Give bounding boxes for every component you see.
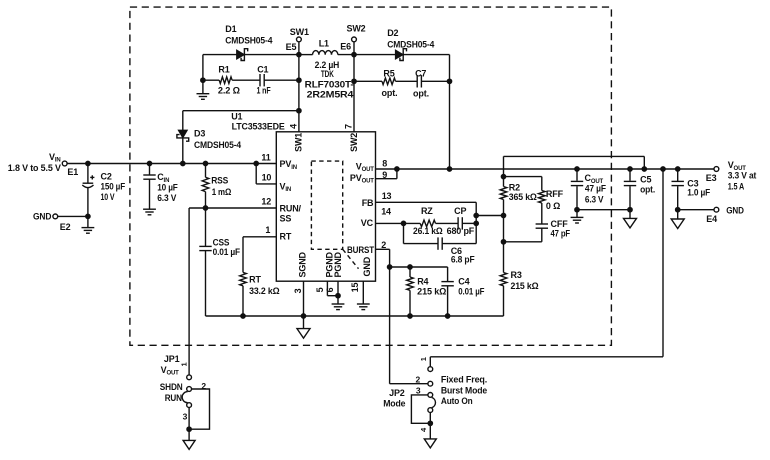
- svg-text:RSS: RSS: [211, 176, 228, 186]
- svg-text:VC: VC: [361, 218, 374, 228]
- junction pin11 stub: [254, 161, 258, 165]
- wire E2 to C2: [58, 215, 88, 217]
- junction R4 top: [408, 265, 412, 269]
- junction FB / divider branch: [474, 213, 478, 217]
- svg-text:8: 8: [382, 158, 387, 168]
- wire JP2 pin1 to VOUT: [662, 169, 664, 357]
- svg-text:CSS: CSS: [213, 238, 230, 248]
- resistor RT: [243, 236, 276, 238]
- svg-text:SW2: SW2: [346, 24, 365, 34]
- svg-text:E1: E1: [67, 167, 78, 177]
- wire analog ground bus: [206, 315, 504, 317]
- wire VOUT rail: [397, 168, 714, 170]
- wire BURST to JP2 pin2: [390, 383, 428, 385]
- JP2 pin 1: [428, 367, 433, 372]
- svg-text:opt.: opt.: [640, 184, 655, 194]
- capacitor CSS: [205, 208, 207, 246]
- svg-text:L1: L1: [319, 39, 329, 49]
- junction SW1/D3 wire: [297, 109, 301, 113]
- junction D2 drop / R5C7: [447, 79, 451, 83]
- svg-text:215 kΩ: 215 kΩ: [511, 281, 539, 291]
- svg-text:CP: CP: [454, 206, 466, 216]
- node VOUT terminal E3: [714, 167, 719, 172]
- svg-text:R1: R1: [218, 64, 229, 74]
- svg-text:3.3 V at: 3.3 V at: [728, 171, 757, 181]
- capacitor C7: [396, 80, 418, 82]
- junction PGND5/6: [336, 294, 340, 298]
- svg-text:SW2: SW2: [349, 133, 359, 152]
- junction C2 top: [86, 161, 90, 165]
- junction JP2 wire on VOUT rail: [661, 167, 665, 171]
- node SW2 terminal E6: [352, 37, 357, 42]
- JP1 shunt bracket pin2 to ground: [189, 389, 209, 429]
- junction sense on VOUT rail: [642, 167, 646, 171]
- node GND terminal E2: [53, 214, 58, 219]
- junction RT bottom on analog bus: [241, 314, 245, 318]
- svg-text:4: 4: [419, 427, 428, 432]
- wire C3 to E4: [678, 209, 714, 211]
- svg-text:PGND: PGND: [333, 251, 343, 277]
- capacitor C3: [677, 169, 679, 181]
- junction R2/RFF top: [501, 174, 505, 178]
- JP1 pin 1: [187, 375, 192, 380]
- svg-text:2.2 Ω: 2.2 Ω: [218, 86, 240, 96]
- wire VC pin14: [376, 222, 404, 224]
- svg-text:GND: GND: [33, 212, 52, 222]
- JP2 pin 4: [428, 408, 433, 413]
- wire SW1 vertical: [298, 42, 300, 132]
- svg-text:GND: GND: [362, 256, 372, 276]
- svg-text:1: 1: [419, 357, 428, 361]
- junction C5 bottom: [628, 208, 632, 212]
- resistor R2: [503, 177, 505, 187]
- svg-text:VIN: VIN: [49, 152, 61, 164]
- junction SW2/R5: [352, 79, 356, 83]
- svg-text:13: 13: [382, 191, 392, 201]
- svg-text:2R2M5R4: 2R2M5R4: [307, 90, 354, 100]
- svg-text:FB: FB: [362, 198, 374, 208]
- svg-text:R3: R3: [511, 270, 522, 280]
- svg-text:10: 10: [262, 173, 272, 183]
- svg-text:1: 1: [179, 362, 188, 366]
- svg-text:3: 3: [416, 386, 421, 396]
- junction RSS bottom / RUN-SS node: [203, 206, 207, 210]
- svg-text:Auto On: Auto On: [441, 396, 473, 406]
- wire PVOUT pin9: [376, 178, 397, 180]
- svg-text:opt.: opt.: [413, 89, 429, 99]
- svg-text:TDK: TDK: [321, 69, 334, 79]
- svg-text:E4: E4: [706, 214, 717, 224]
- wire PGND pin5: [326, 281, 328, 296]
- junction R4 bottom: [408, 314, 412, 318]
- svg-text:CMDSH05-4: CMDSH05-4: [387, 40, 434, 50]
- junction VC node: [401, 221, 405, 225]
- wire VOUT pin8: [376, 168, 397, 170]
- wire PVIN to VIN stub: [255, 164, 257, 184]
- wire COUT to C5 ground: [577, 209, 630, 211]
- ground triangle below C5: [624, 218, 637, 228]
- svg-text:RFF: RFF: [546, 189, 564, 199]
- capacitor CIN: [149, 164, 151, 176]
- junction RZ-CP end: [474, 221, 478, 225]
- svg-text:JP1: JP1: [164, 354, 180, 364]
- JP1 shunt arc pins 2-3: [182, 392, 188, 403]
- diode D1: [203, 54, 237, 56]
- junction SW1/D1/L1: [297, 52, 301, 56]
- ground below CIN: [143, 208, 156, 210]
- wire VIN rail: [67, 163, 276, 165]
- svg-text:C5: C5: [640, 175, 651, 185]
- ground below COUT: [576, 210, 578, 218]
- svg-text:Mode: Mode: [383, 398, 405, 408]
- svg-text:6.8 pF: 6.8 pF: [451, 254, 475, 264]
- junction FB node on divider: [501, 213, 505, 217]
- wire PGND pin6: [337, 281, 339, 304]
- junction pins 8/9: [395, 167, 399, 171]
- svg-text:E5: E5: [286, 42, 297, 52]
- wire JP1 drop: [188, 208, 190, 375]
- resistor R5: [354, 80, 382, 82]
- junction C3 bottom / E4: [676, 208, 680, 212]
- svg-text:D1: D1: [225, 24, 236, 34]
- wire BURST pin2: [376, 248, 390, 250]
- wire GND pin15: [362, 281, 364, 304]
- svg-text:SW1: SW1: [294, 133, 304, 152]
- svg-text:215 kΩ: 215 kΩ: [417, 286, 446, 296]
- node SW1 terminal E5: [297, 37, 302, 42]
- svg-text:U1: U1: [231, 111, 242, 121]
- capacitor C6: [403, 223, 405, 243]
- junction D2 drop on VOUT rail: [447, 167, 451, 171]
- diode D3: [182, 111, 184, 131]
- svg-text:680 pF: 680 pF: [447, 226, 475, 236]
- wire BURST drop to JP2: [389, 249, 391, 383]
- junction D3 cathode on VIN rail: [181, 161, 185, 165]
- svg-text:JP2: JP2: [389, 388, 405, 398]
- svg-text:6.3 V: 6.3 V: [585, 194, 604, 204]
- resistor R3: [503, 216, 505, 273]
- junction JP1 ground: [187, 427, 191, 431]
- ground below C2: [87, 216, 89, 227]
- junction JP2 ground: [428, 421, 432, 425]
- svg-text:1.5 A: 1.5 A: [728, 181, 745, 191]
- op-amp U1 LTC3533EDE body: [276, 132, 375, 281]
- capacitor C1: [232, 79, 260, 81]
- svg-text:14: 14: [381, 206, 391, 216]
- svg-text:Fixed Freq.: Fixed Freq.: [441, 375, 487, 385]
- svg-text:15: 15: [350, 283, 360, 293]
- junction R1 left: [201, 78, 205, 82]
- junction RSS top: [203, 161, 207, 165]
- svg-text:RT: RT: [249, 275, 261, 285]
- svg-text:C2: C2: [101, 172, 112, 182]
- ground triangle below C3: [671, 219, 684, 229]
- demo board dashed border: [130, 7, 612, 345]
- svg-text:1.0 µF: 1.0 µF: [687, 187, 710, 197]
- junction C5 top: [628, 167, 632, 171]
- svg-text:6: 6: [325, 287, 335, 292]
- node GND terminal E4: [714, 207, 719, 212]
- svg-text:D2: D2: [387, 28, 398, 38]
- ground for D1/R1: [202, 55, 204, 94]
- svg-text:1.8 V to 5.5 V: 1.8 V to 5.5 V: [8, 163, 61, 173]
- junction CFF bottom on divider: [501, 240, 505, 244]
- svg-text:E3: E3: [706, 173, 717, 183]
- capacitor C2: [87, 164, 89, 184]
- svg-text:10 V: 10 V: [101, 192, 115, 202]
- svg-text:10 µF: 10 µF: [157, 182, 178, 192]
- svg-text:6.3 V: 6.3 V: [157, 193, 176, 203]
- svg-text:CMDSH05-4: CMDSH05-4: [194, 140, 241, 150]
- wire BURST to R4/C4: [390, 266, 448, 268]
- wire JP1 pin3 to ground: [188, 408, 190, 429]
- exposed pad dashed outline: [311, 161, 342, 249]
- junction BURST / R4C4: [387, 265, 391, 269]
- svg-text:7: 7: [343, 124, 353, 129]
- svg-text:1 mΩ: 1 mΩ: [212, 187, 232, 197]
- svg-text:12: 12: [261, 197, 271, 207]
- wire SW2 vertical: [353, 42, 355, 132]
- wire to RFF top: [504, 176, 542, 178]
- resistor RSS: [205, 164, 207, 178]
- svg-text:26.1 kΩ: 26.1 kΩ: [413, 226, 443, 236]
- svg-text:GND: GND: [726, 206, 744, 216]
- wire RUN/SS pin12: [189, 207, 276, 209]
- svg-text:365 kΩ: 365 kΩ: [509, 192, 537, 202]
- svg-text:BURST: BURST: [347, 245, 375, 255]
- capacitor C4: [447, 267, 449, 282]
- wire JP2 pin4 to ground: [429, 413, 431, 424]
- svg-text:SHDN: SHDN: [160, 382, 183, 392]
- inductor L1: [299, 54, 313, 56]
- svg-text:Burst Mode: Burst Mode: [441, 386, 487, 396]
- junction SW1/C1: [297, 78, 301, 82]
- svg-text:4: 4: [288, 124, 298, 129]
- ground triangle JP1: [183, 440, 195, 449]
- wire FB pin13: [376, 201, 477, 203]
- ground triangle JP2: [424, 439, 436, 448]
- svg-text:1 nF: 1 nF: [257, 86, 272, 96]
- junction SGND on bus: [301, 314, 305, 318]
- ground below GND pin15: [357, 303, 370, 305]
- svg-text:3: 3: [183, 412, 188, 422]
- ground below PGND: [332, 303, 345, 305]
- JP2 pin 3: [428, 393, 433, 398]
- junction COUT bottom: [575, 208, 579, 212]
- resistor RZ: [404, 222, 421, 224]
- svg-text:0.01 µF: 0.01 µF: [458, 286, 485, 296]
- svg-text:E6: E6: [340, 42, 351, 52]
- svg-text:C7: C7: [415, 69, 426, 79]
- node VIN terminal E1: [62, 161, 67, 166]
- JP2 shunt arc pins 3-4: [432, 397, 436, 407]
- capacitor COUT: [576, 169, 578, 181]
- svg-text:E2: E2: [60, 222, 71, 232]
- diode D2: [354, 54, 396, 56]
- svg-text:opt.: opt.: [382, 88, 398, 98]
- svg-text:0 Ω: 0 Ω: [546, 201, 560, 211]
- junction SW2/L1/D2: [352, 52, 356, 56]
- JP1 pin 3: [187, 403, 192, 408]
- svg-text:11: 11: [261, 153, 270, 163]
- svg-text:33.2 kΩ: 33.2 kΩ: [249, 286, 279, 296]
- junction C3 top: [676, 167, 680, 171]
- svg-text:VOUT: VOUT: [161, 365, 180, 377]
- svg-text:C1: C1: [257, 64, 268, 74]
- svg-text:SGND: SGND: [298, 251, 308, 277]
- wire D2 cathode drop: [449, 55, 451, 169]
- junction COUT top: [575, 167, 579, 171]
- svg-text:CMDSH05-4: CMDSH05-4: [225, 35, 272, 45]
- JP1 pin 2: [187, 387, 192, 392]
- svg-text:RLF7030T-: RLF7030T-: [305, 79, 354, 89]
- svg-text:47 µF: 47 µF: [585, 184, 607, 194]
- resistor R4: [409, 267, 411, 277]
- svg-text:1: 1: [265, 225, 270, 235]
- svg-text:R4: R4: [417, 276, 428, 286]
- svg-text:0.01 µF: 0.01 µF: [213, 247, 241, 257]
- svg-text:C4: C4: [458, 276, 469, 286]
- resistor RFF: [541, 177, 543, 191]
- svg-text:47 pF: 47 pF: [551, 228, 571, 238]
- svg-text:3: 3: [293, 288, 303, 293]
- svg-text:150 µF: 150 µF: [101, 182, 126, 192]
- wire FB to divider: [476, 215, 503, 217]
- svg-text:RUN/: RUN/: [280, 204, 302, 214]
- ground triangle below SGND: [303, 316, 305, 329]
- svg-text:RT: RT: [280, 231, 292, 241]
- svg-text:RZ: RZ: [421, 206, 433, 216]
- JP2 pin 2: [428, 381, 433, 386]
- svg-text:SS: SS: [280, 213, 292, 223]
- capacitor CP: [436, 222, 459, 224]
- wire SGND pin3: [303, 281, 305, 316]
- svg-text:RUN: RUN: [165, 393, 182, 403]
- wire VOUT sense line: [503, 156, 505, 176]
- capacitor C5: [629, 169, 631, 181]
- resistor R1: [203, 79, 219, 81]
- JP2 shunt bracket pin3 to ground: [411, 395, 430, 423]
- capacitor CFF: [536, 223, 548, 225]
- junction CIN top: [147, 161, 151, 165]
- wire SW1 to D3: [183, 110, 299, 112]
- junction C2 bottom / E2: [86, 214, 90, 218]
- svg-text:D3: D3: [194, 129, 205, 139]
- svg-text:LTC3533EDE: LTC3533EDE: [232, 121, 285, 131]
- svg-text:R5: R5: [383, 69, 394, 79]
- svg-text:SW1: SW1: [290, 27, 309, 37]
- junction C4 bottom: [445, 314, 449, 318]
- svg-text:5: 5: [315, 287, 325, 292]
